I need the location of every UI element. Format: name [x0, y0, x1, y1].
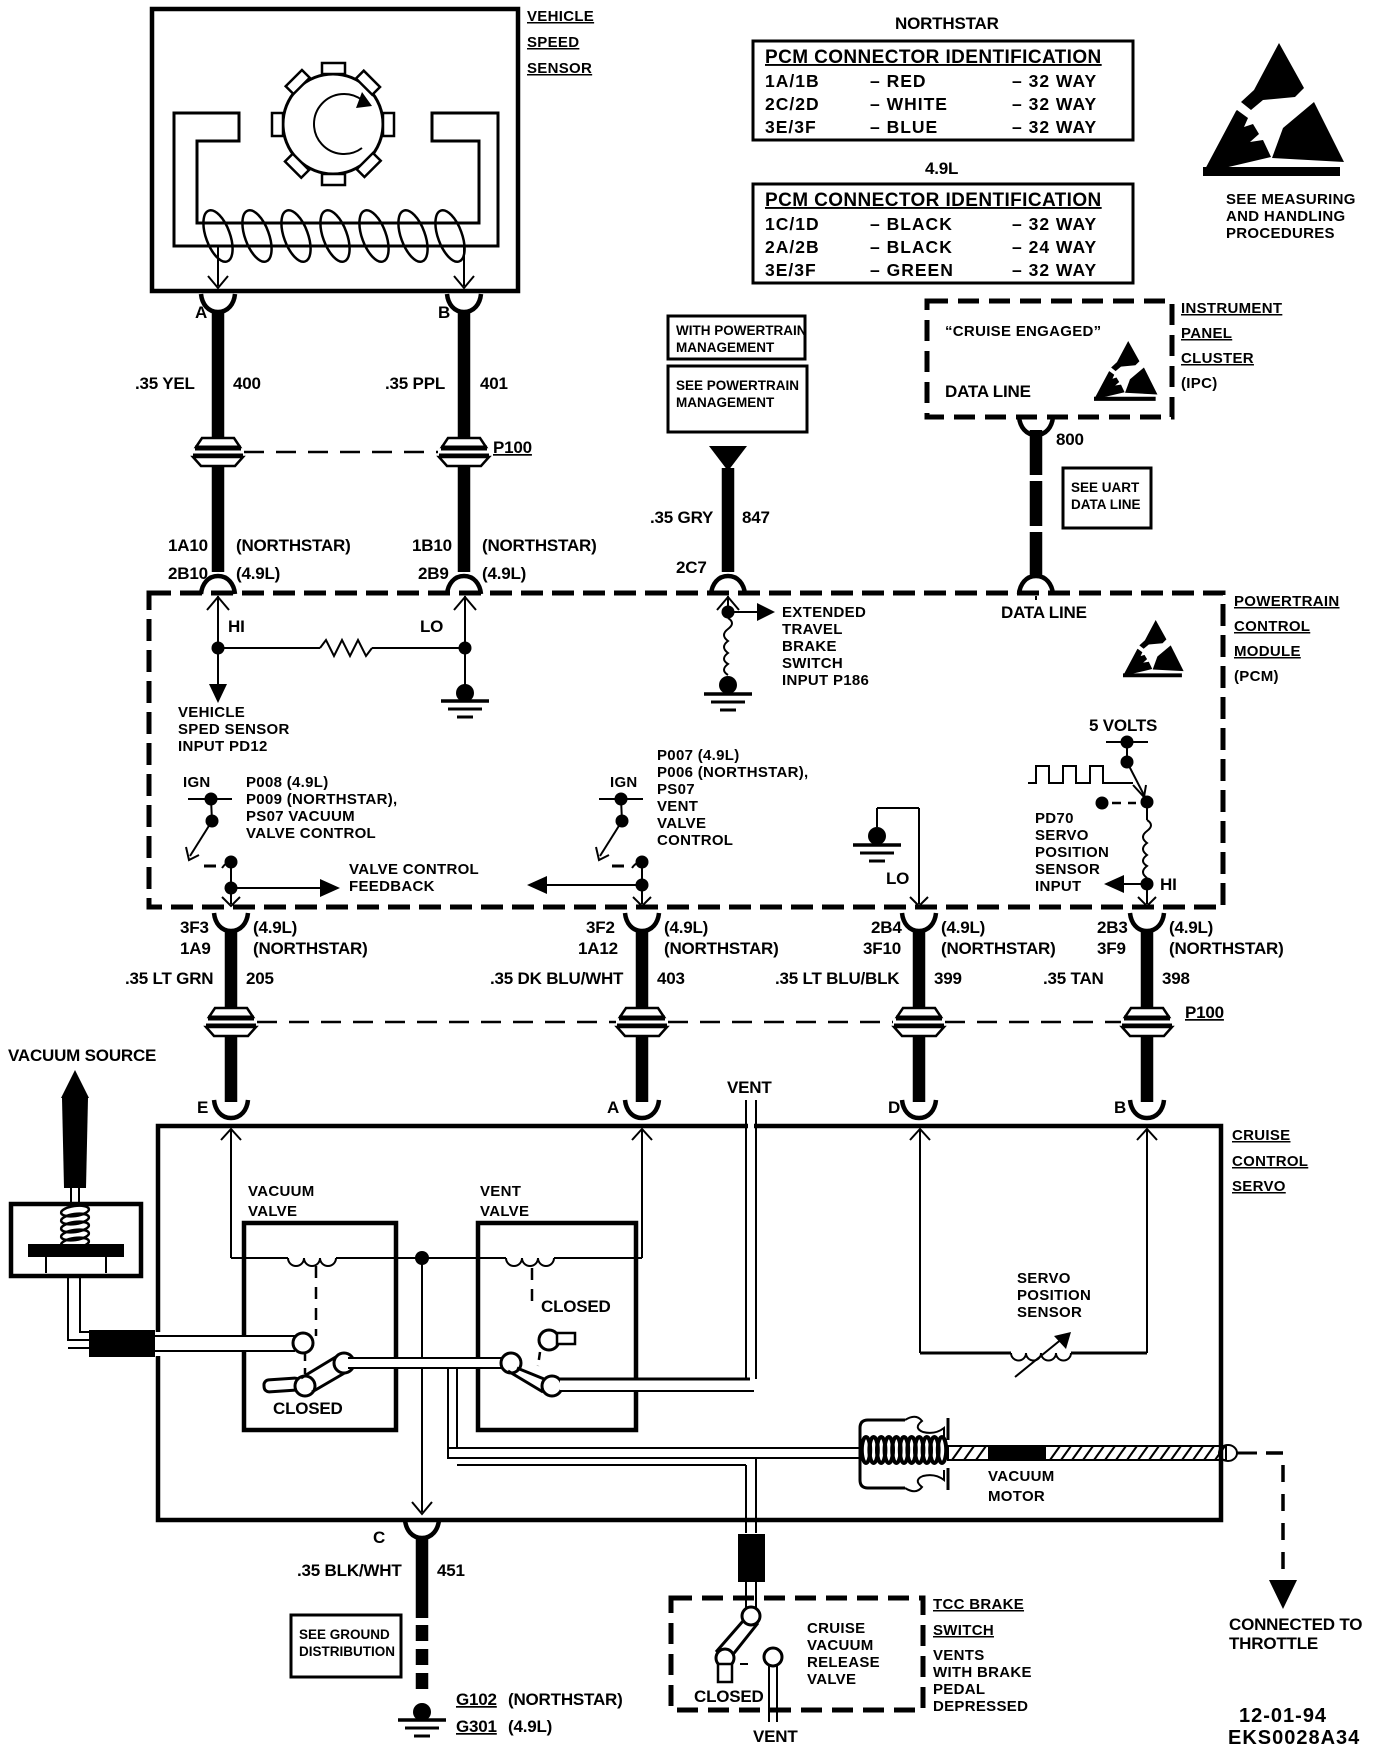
vent valve box [478, 1223, 636, 1430]
svg-text:INSTRUMENT: INSTRUMENT [1181, 300, 1282, 317]
svg-text:VACUUM SOURCE: VACUUM SOURCE [8, 1046, 156, 1065]
vacuum valve plunger dashes [305, 1266, 316, 1374]
wire to terminal C [412, 1258, 432, 1514]
release valve vent pipe [753, 1648, 798, 1746]
svg-text:800: 800 [1056, 430, 1084, 449]
svg-text:VACUUM: VACUUM [807, 1637, 874, 1654]
svg-text:403: 403 [657, 969, 685, 988]
svg-text:(NORTHSTAR): (NORTHSTAR) [482, 536, 597, 555]
svg-text:D: D [888, 1098, 900, 1117]
see powertrain management box [668, 366, 807, 432]
svg-text:VALVE CONTROL: VALVE CONTROL [349, 861, 479, 878]
terminal D [888, 1098, 936, 1118]
svg-text:CLOSED: CLOSED [273, 1399, 343, 1418]
ground G102/G301 [398, 1690, 623, 1736]
vent label and pipe top [727, 1078, 772, 1379]
svg-text:SERVO: SERVO [1017, 1270, 1071, 1287]
svg-text:3F3: 3F3 [180, 918, 209, 937]
svg-text:PD70: PD70 [1035, 810, 1074, 827]
node LO vss [420, 596, 476, 688]
LO ground in PCM [853, 808, 928, 906]
svg-text:2C/2D: 2C/2D [765, 94, 820, 114]
svg-text:– 24 WAY: – 24 WAY [1012, 237, 1097, 257]
svg-text:– RED: – RED [870, 71, 927, 91]
vent valve seat symbol [532, 1268, 611, 1366]
svg-text:– 32 WAY: – 32 WAY [1012, 71, 1097, 91]
connector P100 row wire 205 [206, 1008, 256, 1036]
svg-text:3F10: 3F10 [863, 939, 901, 958]
svg-text:2A/2B: 2A/2B [765, 237, 820, 257]
svg-text:PS07: PS07 [657, 781, 695, 798]
PCM connector identification table northstar [753, 41, 1133, 140]
terminal E [197, 1098, 248, 1118]
svg-text:SENSOR: SENSOR [527, 60, 592, 77]
arrow from powertrain management [709, 446, 747, 471]
svg-text:TRAVEL: TRAVEL [782, 621, 843, 638]
svg-text:.35 GRY: .35 GRY [650, 508, 714, 527]
svg-text:CONNECTED TO: CONNECTED TO [1229, 1615, 1362, 1634]
label powertrain control module [1234, 593, 1340, 685]
svg-text:– BLACK: – BLACK [870, 214, 953, 234]
svg-text:.35 BLK/WHT: .35 BLK/WHT [297, 1561, 402, 1580]
svg-text:VEHICLE: VEHICLE [527, 8, 594, 25]
servo entry arrow B [1137, 1129, 1157, 1353]
svg-text:INPUT P186: INPUT P186 [782, 672, 869, 689]
ESD symbol in IPC [1094, 341, 1157, 401]
svg-text:400: 400 [233, 374, 261, 393]
svg-text:MANAGEMENT: MANAGEMENT [676, 395, 775, 410]
svg-text:VALVE CONTROL: VALVE CONTROL [246, 825, 376, 842]
with powertrain management box [668, 316, 807, 359]
closed label vacuum valve [273, 1399, 343, 1418]
svg-text:VALVE: VALVE [480, 1203, 529, 1220]
svg-text:P009 (NORTHSTAR),: P009 (NORTHSTAR), [246, 791, 398, 808]
vehicle speed sensor input arrow [178, 648, 290, 755]
valve control feedback arrow right [222, 861, 479, 906]
svg-text:VACUUM: VACUUM [988, 1468, 1055, 1485]
svg-text:DISTRIBUTION: DISTRIBUTION [299, 1644, 395, 1659]
svg-text:VALVE: VALVE [657, 815, 706, 832]
terminal A [195, 294, 235, 322]
svg-text:.35 YEL: .35 YEL [135, 374, 195, 393]
label vehicle speed sensor [527, 8, 594, 77]
svg-text:SENSOR: SENSOR [1035, 861, 1100, 878]
svg-text:SPED SENSOR: SPED SENSOR [178, 721, 290, 738]
svg-text:DATA LINE: DATA LINE [1071, 497, 1141, 512]
label instrument panel cluster [1181, 300, 1282, 392]
servo position sensor input resistor [1035, 802, 1177, 906]
svg-text:P006 (NORTHSTAR),: P006 (NORTHSTAR), [657, 764, 809, 781]
svg-text:WITH POWERTRAIN: WITH POWERTRAIN [676, 323, 807, 338]
connector P100 row wire 403 [617, 1008, 667, 1036]
vehicle speed sensor box [152, 9, 518, 291]
P100 dashed tie line bottom [257, 1003, 1224, 1022]
pipe to vacuum motor [447, 1448, 862, 1465]
pin label 1A10/2B10 [168, 536, 351, 583]
svg-text:(4.9L): (4.9L) [482, 564, 526, 583]
svg-text:SEE UART: SEE UART [1071, 480, 1140, 495]
node HI vss input [207, 596, 245, 655]
svg-text:3E/3F: 3E/3F [765, 260, 817, 280]
svg-text:NORTHSTAR: NORTHSTAR [895, 14, 999, 33]
svg-text:PCM CONNECTOR IDENTIFICATION: PCM CONNECTOR IDENTIFICATION [765, 190, 1102, 211]
northstar table caption [895, 14, 999, 33]
svg-text:1A10: 1A10 [168, 536, 208, 555]
terminal B [438, 294, 481, 322]
data line node [1001, 596, 1087, 622]
svg-text:CLOSED: CLOSED [694, 1687, 764, 1706]
svg-text:PANEL: PANEL [1181, 325, 1232, 342]
svg-text:.35 LT GRN: .35 LT GRN [125, 969, 213, 988]
connector P100 row wire 399 [894, 1008, 944, 1036]
pipe to release valve [746, 1458, 756, 1533]
connector P100 on wire A [193, 438, 243, 466]
svg-text:HI: HI [228, 617, 245, 636]
svg-text:5 VOLTS: 5 VOLTS [1089, 716, 1157, 735]
svg-text:MODULE: MODULE [1234, 643, 1301, 660]
svg-text:– 32 WAY: – 32 WAY [1012, 214, 1097, 234]
svg-text:HI: HI [1160, 875, 1177, 894]
ESD symbol in PCM [1123, 620, 1184, 677]
PCM connector identification table 4.9L [753, 184, 1133, 283]
ground at LO [441, 684, 489, 717]
svg-text:SWITCH: SWITCH [782, 655, 843, 672]
servo entry arrow A [632, 1129, 652, 1258]
svg-text:RELEASE: RELEASE [807, 1654, 880, 1671]
VSS coil [197, 207, 470, 266]
vacuum source label [8, 1046, 156, 1065]
svg-text:.35 TAN: .35 TAN [1043, 969, 1104, 988]
label cruise control servo [1232, 1127, 1308, 1195]
wire 451 [297, 1536, 465, 1695]
vacuum source arrow and plug [61, 1070, 89, 1204]
vacuum hose black [89, 1330, 155, 1357]
svg-text:BRAKE: BRAKE [782, 638, 837, 655]
svg-text:3E/3F: 3E/3F [765, 117, 817, 137]
svg-text:(NORTHSTAR): (NORTHSTAR) [1169, 939, 1284, 958]
check valve box [11, 1204, 141, 1276]
svg-text:1C/1D: 1C/1D [765, 214, 820, 234]
svg-text:PCM CONNECTOR IDENTIFICATION: PCM CONNECTOR IDENTIFICATION [765, 47, 1102, 68]
svg-text:4.9L: 4.9L [925, 159, 958, 178]
svg-text:CRUISE: CRUISE [1232, 1127, 1290, 1144]
svg-text:EXTENDED: EXTENDED [782, 604, 866, 621]
svg-text:SERVO: SERVO [1232, 1178, 1286, 1195]
svg-text:SENSOR: SENSOR [1017, 1304, 1082, 1321]
vent valve label [480, 1183, 529, 1220]
coil wire across valves [231, 1251, 642, 1266]
svg-text:VALVE: VALVE [807, 1671, 856, 1688]
svg-text:WITH BRAKE: WITH BRAKE [933, 1664, 1032, 1681]
svg-text:1A9: 1A9 [180, 939, 211, 958]
svg-text:POWERTRAIN: POWERTRAIN [1234, 593, 1340, 610]
svg-text:P100: P100 [493, 438, 532, 457]
svg-text:A: A [607, 1098, 619, 1117]
svg-text:PEDAL: PEDAL [933, 1681, 985, 1698]
servo entry arrow E [221, 1129, 241, 1258]
connected to throttle dashed arrow [1229, 1453, 1362, 1653]
VSS pole yoke [174, 113, 498, 246]
svg-text:2B4: 2B4 [871, 918, 902, 937]
PCM powertrain control module dashed box [149, 593, 1223, 907]
wire 205 [125, 929, 274, 1102]
svg-text:POSITION: POSITION [1035, 844, 1109, 861]
vacuum source rod into valve [155, 1333, 313, 1353]
svg-text:1A12: 1A12 [578, 939, 618, 958]
svg-text:(NORTHSTAR): (NORTHSTAR) [236, 536, 351, 555]
svg-text:– BLUE: – BLUE [870, 117, 938, 137]
svg-text:SERVO: SERVO [1035, 827, 1089, 844]
svg-text:(NORTHSTAR): (NORTHSTAR) [941, 939, 1056, 958]
switch P007 vent valve control [596, 747, 809, 869]
svg-text:2B10: 2B10 [168, 564, 208, 583]
svg-text:– WHITE: – WHITE [870, 94, 948, 114]
svg-text:LO: LO [886, 869, 909, 888]
svg-text:451: 451 [437, 1561, 465, 1580]
svg-text:401: 401 [480, 374, 508, 393]
svg-text:CRUISE: CRUISE [807, 1620, 865, 1637]
svg-text:B: B [438, 303, 450, 322]
vent valve lever [508, 1368, 562, 1396]
svg-text:C: C [373, 1528, 385, 1547]
actuator rod between valves [348, 1353, 521, 1373]
svg-text:PROCEDURES: PROCEDURES [1226, 225, 1335, 242]
svg-text:MOTOR: MOTOR [988, 1488, 1045, 1505]
cruise control servo box [158, 1126, 1221, 1520]
svg-text:“CRUISE ENGAGED”: “CRUISE ENGAGED” [945, 323, 1101, 340]
svg-text:CONTROL: CONTROL [1234, 618, 1310, 635]
see ground distribution box [291, 1615, 401, 1677]
terminal 2B3/3F9 [1097, 913, 1284, 958]
wire 800 dashed thick [1036, 430, 1084, 578]
switch P008 vacuum valve control [183, 774, 398, 869]
svg-text:205: 205 [246, 969, 274, 988]
svg-text:(NORTHSTAR): (NORTHSTAR) [253, 939, 368, 958]
svg-text:(IPC): (IPC) [1181, 375, 1218, 392]
vent valve pipe to vent [560, 1379, 754, 1391]
svg-text:EKS0028A34: EKS0028A34 [1228, 1727, 1360, 1749]
release valve hose [738, 1534, 765, 1612]
svg-text:P008 (4.9L): P008 (4.9L) [246, 774, 329, 791]
terminal cup wire 800 at PCM [1019, 576, 1053, 594]
check valve spring [60, 1204, 89, 1250]
svg-text:VENT: VENT [753, 1727, 798, 1746]
terminal 3F3/1A9 [180, 913, 368, 958]
square wave signal [1028, 766, 1133, 783]
svg-text:1A/1B: 1A/1B [765, 71, 820, 91]
svg-text:VACUUM: VACUUM [248, 1183, 315, 1200]
P100 dashed tie line top [244, 438, 532, 457]
svg-text:(4.9L): (4.9L) [664, 918, 708, 937]
vacuum riser pipe [448, 1368, 457, 1458]
4.9L table caption [925, 159, 958, 178]
svg-text:SPEED: SPEED [527, 34, 579, 51]
svg-text:DATA LINE: DATA LINE [1001, 603, 1087, 622]
connector P100 row wire 398 [1122, 1008, 1172, 1036]
ESD symbol large [1203, 43, 1356, 242]
svg-text:1B10: 1B10 [412, 536, 452, 555]
svg-text:VENT: VENT [480, 1183, 521, 1200]
vacuum pipe from check valve [68, 1276, 90, 1348]
wire 403 [490, 929, 685, 1102]
svg-text:399: 399 [934, 969, 962, 988]
svg-text:POSITION: POSITION [1017, 1287, 1091, 1304]
svg-text:CONTROL: CONTROL [1232, 1153, 1308, 1170]
terminal 3F2/1A12 [578, 913, 779, 958]
svg-text:VENT: VENT [727, 1078, 772, 1097]
vent valve feedback arrow left [527, 862, 651, 906]
see UART data line box [1063, 468, 1151, 528]
release valve lever [694, 1607, 764, 1706]
wire 400 A to PCM [135, 310, 261, 572]
svg-text:MANAGEMENT: MANAGEMENT [676, 340, 775, 355]
brake input resistor to ground [704, 618, 752, 710]
svg-text:P100: P100 [1185, 1003, 1224, 1022]
svg-text:12-01-94: 12-01-94 [1239, 1705, 1327, 1727]
svg-text:CLUSTER: CLUSTER [1181, 350, 1254, 367]
vacuum motor spring [862, 1437, 946, 1463]
svg-text:2C7: 2C7 [676, 558, 707, 577]
svg-text:CONTROL: CONTROL [657, 832, 733, 849]
vacuum valve label [248, 1183, 315, 1220]
svg-text:(4.9L): (4.9L) [236, 564, 280, 583]
svg-text:3F2: 3F2 [586, 918, 615, 937]
svg-text:B: B [1114, 1098, 1126, 1117]
pin label 1B10/2B9 [412, 536, 597, 583]
svg-text:G301: G301 [456, 1717, 497, 1736]
svg-text:398: 398 [1162, 969, 1190, 988]
svg-text:E: E [197, 1098, 208, 1117]
vacuum valve lever [264, 1353, 354, 1396]
svg-text:TCC BRAKE: TCC BRAKE [933, 1596, 1024, 1613]
svg-text:(4.9L): (4.9L) [508, 1717, 552, 1736]
cruise vacuum release valve box [671, 1598, 923, 1710]
svg-text:PS07 VACUUM: PS07 VACUUM [246, 808, 355, 825]
svg-text:2B3: 2B3 [1097, 918, 1128, 937]
instrument panel cluster box [927, 301, 1172, 417]
connector P100 on wire B [439, 438, 489, 466]
terminal C [373, 1520, 439, 1547]
svg-text:FEEDBACK: FEEDBACK [349, 878, 435, 895]
svg-text:VENT: VENT [657, 798, 698, 815]
label tcc brake switch [933, 1596, 1032, 1715]
svg-text:.35 LT BLU/BLK: .35 LT BLU/BLK [775, 969, 900, 988]
svg-text:LO: LO [420, 617, 443, 636]
vacuum motor housing [860, 1417, 948, 1492]
svg-text:SWITCH: SWITCH [933, 1622, 994, 1639]
VSS input resistor [218, 640, 465, 656]
svg-text:(NORTHSTAR): (NORTHSTAR) [664, 939, 779, 958]
VSS reluctor wheel [272, 63, 394, 185]
svg-text:SEE GROUND: SEE GROUND [299, 1627, 390, 1642]
wire 847 [650, 468, 770, 577]
svg-text:DATA LINE: DATA LINE [945, 382, 1031, 401]
svg-text:VALVE: VALVE [248, 1203, 297, 1220]
svg-text:SEE POWERTRAIN: SEE POWERTRAIN [676, 378, 799, 393]
svg-text:3F9: 3F9 [1097, 939, 1126, 958]
svg-text:G102: G102 [456, 1690, 497, 1709]
vacuum valve box [244, 1223, 396, 1430]
svg-text:INPUT PD12: INPUT PD12 [178, 738, 268, 755]
servo position sensor switch [1096, 762, 1154, 810]
terminal A [607, 1098, 659, 1118]
terminal cup wire 847 at PCM [711, 576, 745, 594]
svg-text:VENTS: VENTS [933, 1647, 985, 1664]
terminal B [1114, 1098, 1164, 1118]
vent pipe gap through servo edge [746, 1118, 756, 1134]
svg-text:DEPRESSED: DEPRESSED [933, 1698, 1028, 1715]
svg-text:2B9: 2B9 [418, 564, 449, 583]
terminal cup wire 800 at IPC [1019, 417, 1053, 435]
svg-text:P007 (4.9L): P007 (4.9L) [657, 747, 740, 764]
servo entry arrow D [910, 1129, 930, 1353]
svg-text:CLOSED: CLOSED [541, 1297, 611, 1316]
svg-text:.35 DK BLU/WHT: .35 DK BLU/WHT [490, 969, 624, 988]
svg-text:– BLACK: – BLACK [870, 237, 953, 257]
svg-text:IGN: IGN [610, 774, 638, 791]
svg-text:IGN: IGN [183, 774, 211, 791]
svg-text:AND HANDLING: AND HANDLING [1226, 208, 1345, 225]
wire 399 [775, 929, 962, 1102]
svg-text:(4.9L): (4.9L) [1169, 918, 1213, 937]
wire 398 [1043, 929, 1190, 1102]
svg-text:847: 847 [742, 508, 770, 527]
VSS internal lead A arrow [208, 246, 228, 288]
svg-text:(4.9L): (4.9L) [253, 918, 297, 937]
extended travel brake switch input [717, 596, 869, 689]
VSS internal lead B arrow [454, 246, 474, 288]
svg-text:(4.9L): (4.9L) [941, 918, 985, 937]
svg-text:(NORTHSTAR): (NORTHSTAR) [508, 1690, 623, 1709]
svg-text:– 32 WAY: – 32 WAY [1012, 117, 1097, 137]
svg-text:– 32 WAY: – 32 WAY [1012, 94, 1097, 114]
svg-text:(PCM): (PCM) [1234, 668, 1279, 685]
svg-text:– 32 WAY: – 32 WAY [1012, 260, 1097, 280]
svg-text:THROTTLE: THROTTLE [1229, 1634, 1318, 1653]
svg-text:INPUT: INPUT [1035, 878, 1082, 895]
wire 401 B to PCM [385, 310, 508, 572]
terminal 2B4/3F10 [863, 913, 1056, 958]
check valve plate [28, 1244, 124, 1273]
5 volts node [1089, 716, 1157, 769]
date and document number [1228, 1705, 1360, 1749]
svg-text:SEE MEASURING: SEE MEASURING [1226, 191, 1356, 208]
svg-text:.35 PPL: .35 PPL [385, 374, 445, 393]
servo position sensor [920, 1270, 1147, 1377]
vacuum motor hatched rod [948, 1445, 1237, 1505]
terminal cup wire B at PCM [447, 576, 481, 594]
svg-text:– GREEN: – GREEN [870, 260, 954, 280]
terminal cup wire A at PCM [201, 576, 235, 594]
svg-text:VEHICLE: VEHICLE [178, 704, 245, 721]
